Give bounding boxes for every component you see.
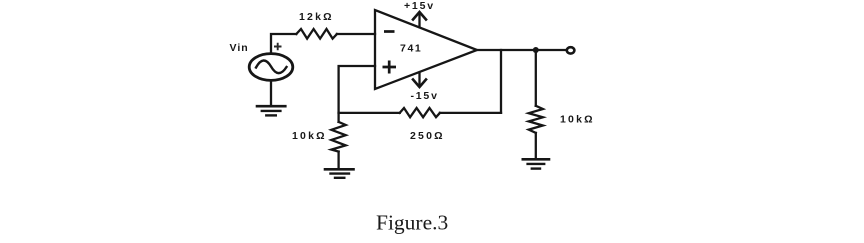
resistor R2 10k (vertical, to ground) [331,122,345,152]
wire resistor to ground [337,152,339,168]
svg-text:Figure.3: Figure.3 [376,211,448,235]
ground G1 (below source) [257,105,285,108]
sine wave inside source [256,60,287,73]
ground G2 (below R2) [325,168,354,171]
wire feedback bottom run [339,112,400,114]
wire op-amp output [477,49,567,51]
svg-text:12kΩ: 12kΩ [299,11,334,23]
ground G3 (below R4) [523,158,549,161]
wire R1 to op-amp inverting input [337,33,375,35]
wire output node to load resistor [535,50,537,106]
wire node to lower resistor [337,113,339,122]
wire source top to resistor [271,34,296,53]
wire R4 to ground [535,133,537,158]
wire feedback riser to output [500,50,502,113]
resistor R1 12k zigzag [296,29,337,39]
svg-text:10kΩ: 10kΩ [560,114,595,126]
svg-text:741: 741 [400,43,422,55]
op-amp plus sign [383,61,397,74]
wire R3 to feedback riser [440,112,501,114]
svg-text:-15v: -15v [411,90,439,102]
wire non-inverting input [339,66,375,113]
op-amp minus sign [384,30,395,33]
+15v supply arrow [418,13,420,27]
svg-text:250Ω: 250Ω [410,130,445,142]
output terminal circle [567,47,575,53]
junction node at output [533,47,539,53]
svg-text:Vin: Vin [230,42,249,54]
op-amp U1 741 triangle [375,10,477,89]
svg-text:+15v: +15v [404,0,435,12]
-15v supply arrow [418,73,420,86]
wire source bottom to ground [270,81,272,105]
resistor R3 250 ohm zigzag [400,108,440,117]
source VS1 (Vin sine source) [249,54,293,81]
label source plus [274,43,282,50]
resistor R4 10k load (vertical) [529,106,543,133]
svg-text:10kΩ: 10kΩ [292,130,327,142]
